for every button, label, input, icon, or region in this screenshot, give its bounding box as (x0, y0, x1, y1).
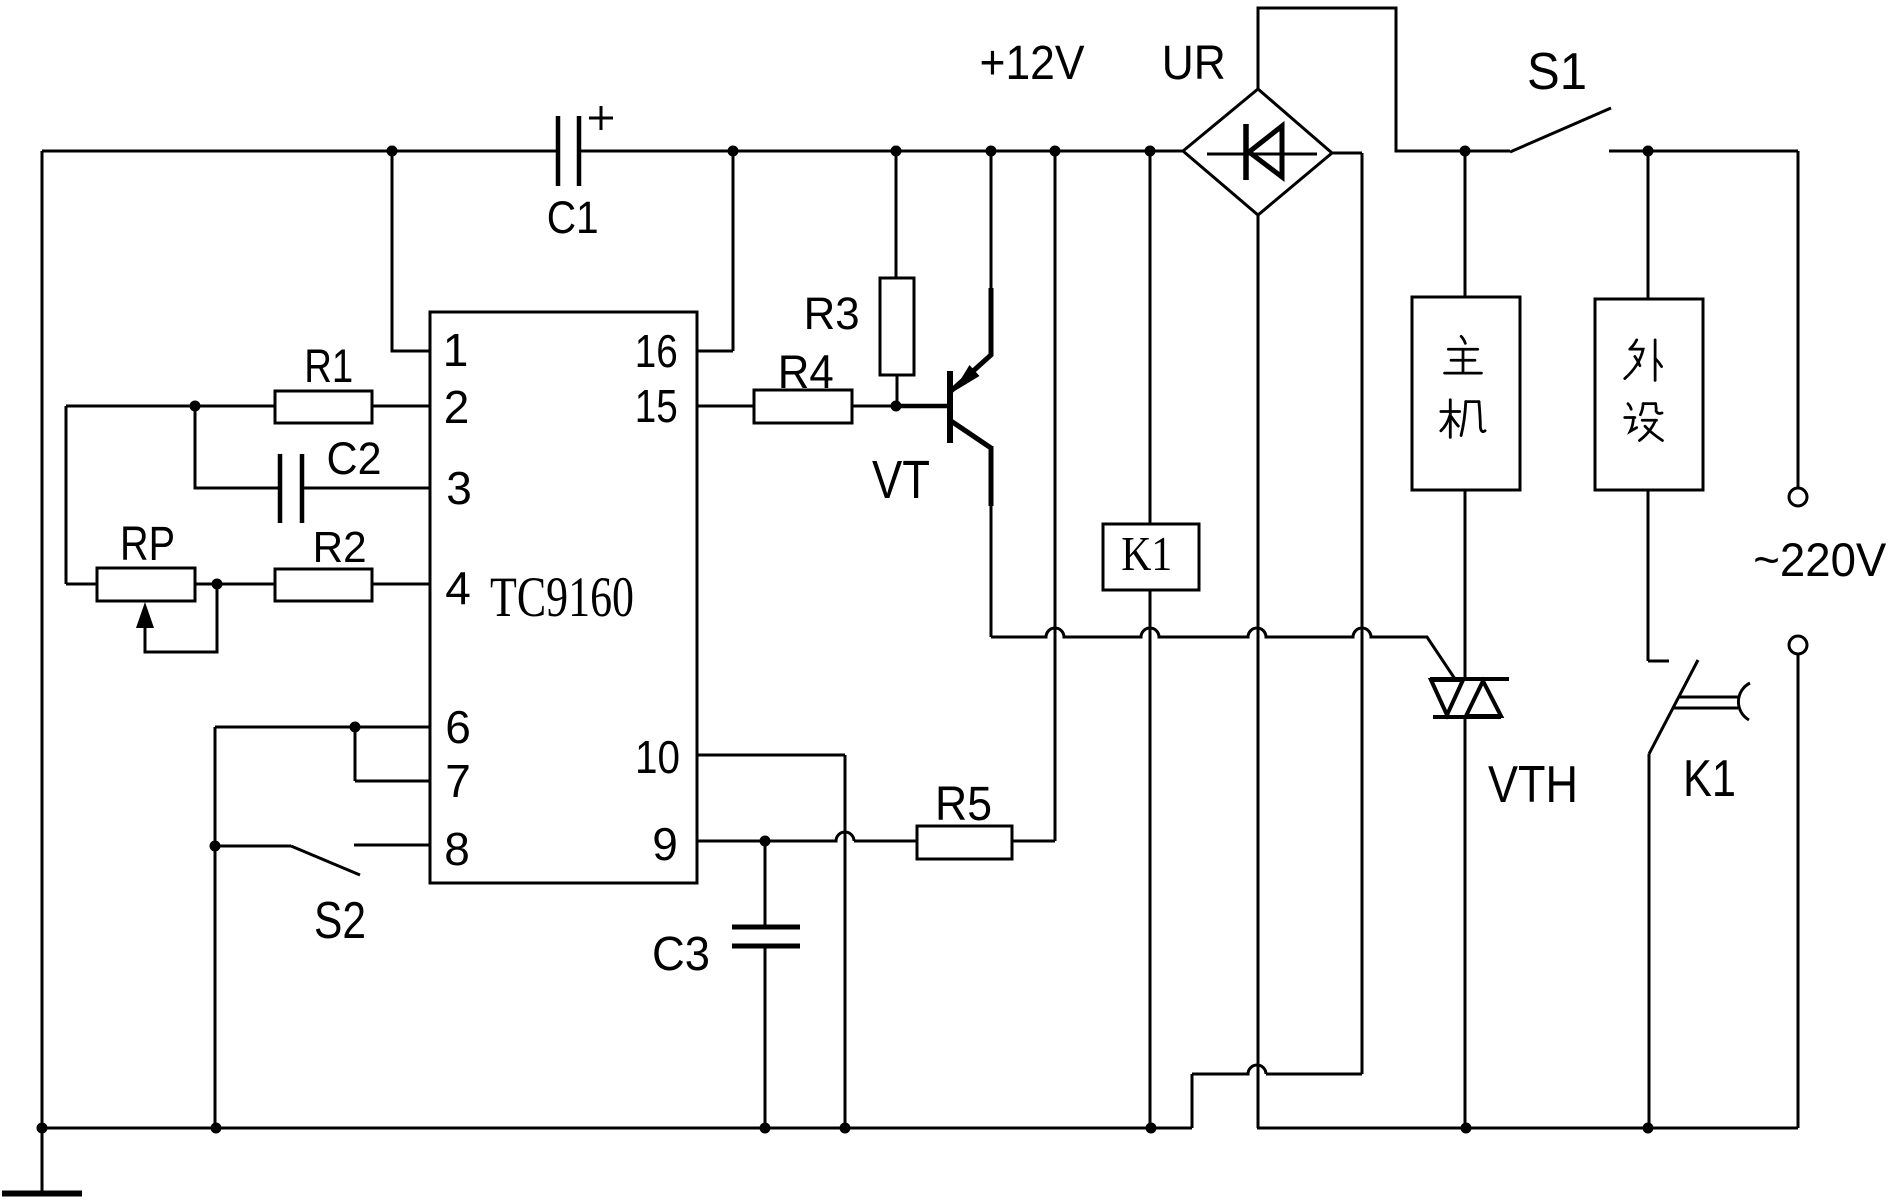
svg-text:R5: R5 (935, 778, 992, 831)
wire R1 to node A (195, 405, 275, 408)
wire R4 to node B (852, 405, 950, 408)
svg-text:C1: C1 (547, 192, 599, 243)
capacitor C2 (280, 454, 302, 523)
box peripheral (wai she) (1595, 151, 1703, 661)
label R1 (304, 339, 353, 392)
wire IC pin 6 left (215, 726, 430, 729)
svg-text:S1: S1 (1527, 43, 1587, 101)
svg-text:15: 15 (635, 380, 678, 432)
label R4 (778, 345, 834, 398)
transistor VT (950, 151, 992, 637)
svg-text:TC9160: TC9160 (490, 566, 634, 629)
text wai (peripheral char 1) (1625, 340, 1662, 380)
label +12V (980, 37, 1085, 90)
svg-text:S2: S2 (314, 892, 366, 950)
wire ground step link (hop over UR output) (1192, 1065, 1362, 1128)
wire VT collector to VTH gate (with hops) (991, 628, 1455, 679)
svg-text:2: 2 (444, 381, 470, 433)
text ji (host char 2) (1441, 400, 1485, 438)
wire R2 to IC pin 4 (372, 583, 430, 586)
ground (2, 1128, 82, 1194)
capacitor C3 (732, 841, 800, 1128)
svg-text:R2: R2 (313, 523, 367, 572)
label RP (120, 518, 175, 571)
label ~220V (1753, 533, 1887, 586)
svg-text:C3: C3 (652, 928, 710, 981)
triac VTH (1430, 679, 1509, 1128)
bridge rectifier UR (1183, 89, 1332, 215)
svg-text:C2: C2 (327, 433, 382, 484)
svg-text:UR: UR (1162, 37, 1226, 90)
svg-text:8: 8 (444, 823, 470, 875)
wire IC pin 10 down to ground rail (697, 755, 845, 1128)
svg-text:VT: VT (872, 450, 930, 510)
svg-text:3: 3 (446, 462, 472, 514)
wire RP to R2 (195, 583, 275, 586)
svg-text:~220V: ~220V (1753, 533, 1887, 586)
box host (zhu ji) (1412, 151, 1520, 679)
wire C1 junction to IC pin 1 (392, 151, 430, 351)
label UR (1162, 37, 1226, 90)
switch S1 (1465, 108, 1648, 152)
label VT (872, 450, 930, 510)
wire UR bottom output (1257, 215, 1798, 1128)
label S2 (314, 892, 366, 950)
svg-text:R4: R4 (778, 345, 834, 398)
svg-text:K1: K1 (1683, 750, 1736, 808)
text she (peripheral char 2) (1625, 404, 1663, 441)
capacitor C1 (558, 106, 613, 186)
switch S2 (215, 845, 430, 875)
resistor R4 (754, 390, 852, 423)
wire pin 6 branch down to S2 and ground (214, 727, 217, 1128)
wire IC pin 7 to pin 6 (355, 727, 430, 781)
label K1 contact (1683, 750, 1736, 808)
wire left border (41, 151, 44, 1128)
wire node A down to C2 (195, 406, 280, 488)
svg-text:9: 9 (652, 818, 678, 870)
wire +12V top rail (42, 150, 1183, 153)
relay contact K1 (1649, 660, 1750, 1128)
wire bottom ground rail (42, 1127, 1192, 1130)
label C1 (547, 192, 599, 243)
resistor R5 (917, 826, 1012, 859)
wire UR right vertex down (1332, 153, 1362, 1074)
label K1 coil (1121, 526, 1172, 581)
label R5 (935, 778, 992, 831)
IC pin numbers (443, 324, 680, 875)
wire UR top loop (1258, 8, 1465, 151)
label R3 (804, 288, 860, 339)
svg-text:16: 16 (635, 325, 678, 377)
wire C2 to IC pin 3 (302, 487, 430, 490)
svg-text:10: 10 (635, 731, 680, 783)
resistor R3 (880, 151, 914, 406)
label C2 (327, 433, 382, 484)
resistor R2 (275, 569, 372, 601)
svg-text:R1: R1 (304, 339, 353, 392)
wire right rail to terminal (1648, 151, 1798, 488)
svg-text:4: 4 (445, 562, 471, 614)
terminal lower circle (1789, 636, 1807, 654)
svg-text:6: 6 (445, 701, 471, 753)
svg-text:1: 1 (443, 324, 469, 376)
label R2 (313, 523, 367, 572)
wire IC pin 9 to R5 (hop over pin10 wire) (697, 832, 917, 841)
wire IC pin 16 up to rail (697, 151, 733, 351)
wire IC pin 2 to R1 (372, 405, 430, 408)
wire lower terminal to bottom rail (1797, 654, 1800, 1128)
text zhu (host char 1) (1445, 336, 1482, 373)
wire node A to left branch (66, 406, 195, 584)
wire IC pin 15 to R4 (697, 405, 754, 408)
svg-text:K1: K1 (1121, 526, 1172, 581)
relay coil K1 (1103, 151, 1199, 1128)
label TC9160 (490, 566, 634, 629)
label C3 (652, 928, 710, 981)
potentiometer RP (97, 568, 195, 628)
wire R5 up to rail (1012, 151, 1055, 841)
svg-text:RP: RP (120, 518, 175, 571)
wire RP wiper loop (145, 584, 217, 652)
terminal upper circle (1789, 488, 1807, 506)
svg-text:VTH: VTH (1488, 756, 1578, 814)
svg-text:7: 7 (445, 755, 471, 807)
svg-text:+12V: +12V (980, 37, 1085, 90)
label S1 (1527, 43, 1587, 101)
IC U1 TC9160 box (430, 312, 697, 883)
svg-text:R3: R3 (804, 288, 860, 339)
label VTH (1488, 756, 1578, 814)
resistor R1 (275, 391, 372, 423)
